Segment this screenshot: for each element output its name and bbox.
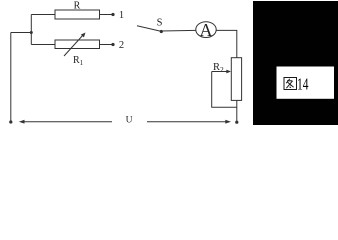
terminal dot left <box>9 120 12 123</box>
figure label box <box>277 67 335 99</box>
wire ammeter to R2 <box>216 30 237 57</box>
junction dot <box>30 31 33 34</box>
svg-text:2: 2 <box>119 40 124 51</box>
ammeter A <box>196 20 216 40</box>
svg-text:S: S <box>157 18 163 29</box>
svg-text:U: U <box>126 115 133 125</box>
figure label 图14 <box>284 78 297 90</box>
wire R right <box>100 14 112 16</box>
wire junction horizontal <box>11 32 32 34</box>
wire switch to ammeter <box>161 29 196 32</box>
wire R left <box>31 14 55 16</box>
node 1 dot <box>111 13 114 16</box>
voltage U dimension line left <box>19 120 112 124</box>
slider tap arrow R2 <box>212 70 231 74</box>
svg-text:R: R <box>74 1 81 12</box>
voltage U dimension line right <box>147 120 231 124</box>
black panel <box>253 1 338 125</box>
wire branch connector vertical <box>30 15 32 45</box>
wire left main vertical <box>10 33 12 122</box>
rheostat R1 <box>55 33 100 57</box>
svg-text:A: A <box>200 20 213 40</box>
svg-text:1: 1 <box>119 10 124 21</box>
resistor R <box>55 10 100 19</box>
wire R2 bottom <box>236 100 238 121</box>
wire tap loop <box>212 72 237 108</box>
terminal dot right <box>235 121 238 124</box>
svg-text:14: 14 <box>297 75 309 94</box>
wire R1 left <box>31 44 55 46</box>
resistor R2 <box>231 58 241 101</box>
wire R1 right <box>100 44 112 46</box>
node 2 dot <box>111 43 114 46</box>
switch S <box>137 26 163 33</box>
